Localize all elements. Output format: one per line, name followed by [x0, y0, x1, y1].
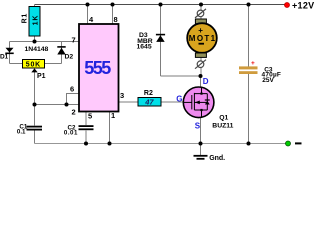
svg-text:D: D: [203, 77, 209, 86]
svg-text:P1: P1: [37, 73, 46, 80]
svg-text:7: 7: [72, 36, 76, 45]
svg-text:MOT1: MOT1: [189, 34, 216, 43]
svg-text:0.1: 0.1: [17, 129, 26, 136]
svg-text:R1: R1: [22, 13, 29, 23]
svg-text:47: 47: [144, 98, 154, 107]
svg-text:+: +: [251, 60, 255, 67]
svg-text:Q1: Q1: [219, 115, 228, 122]
svg-text:1: 1: [111, 111, 115, 120]
svg-text:1N4148: 1N4148: [25, 46, 49, 53]
svg-text:8: 8: [114, 15, 118, 24]
svg-text:+12V: +12V: [292, 0, 314, 10]
svg-text:G: G: [176, 94, 182, 103]
svg-text:1645: 1645: [137, 44, 152, 51]
svg-text:555: 555: [84, 58, 111, 78]
svg-text:3: 3: [120, 91, 124, 100]
svg-text:1K: 1K: [32, 15, 39, 26]
svg-text:50K: 50K: [26, 61, 41, 68]
svg-text:6: 6: [70, 84, 74, 93]
svg-text:BUZ11: BUZ11: [212, 122, 233, 129]
svg-text:2: 2: [72, 108, 76, 117]
svg-text:S: S: [195, 122, 201, 131]
svg-text:R2: R2: [144, 90, 153, 97]
svg-text:5: 5: [88, 111, 92, 120]
svg-text:D1: D1: [0, 54, 8, 61]
svg-text:D2: D2: [65, 54, 74, 61]
svg-text:Gnd.: Gnd.: [209, 155, 225, 162]
svg-text:0.01: 0.01: [64, 129, 78, 136]
svg-text:25V: 25V: [262, 77, 274, 84]
